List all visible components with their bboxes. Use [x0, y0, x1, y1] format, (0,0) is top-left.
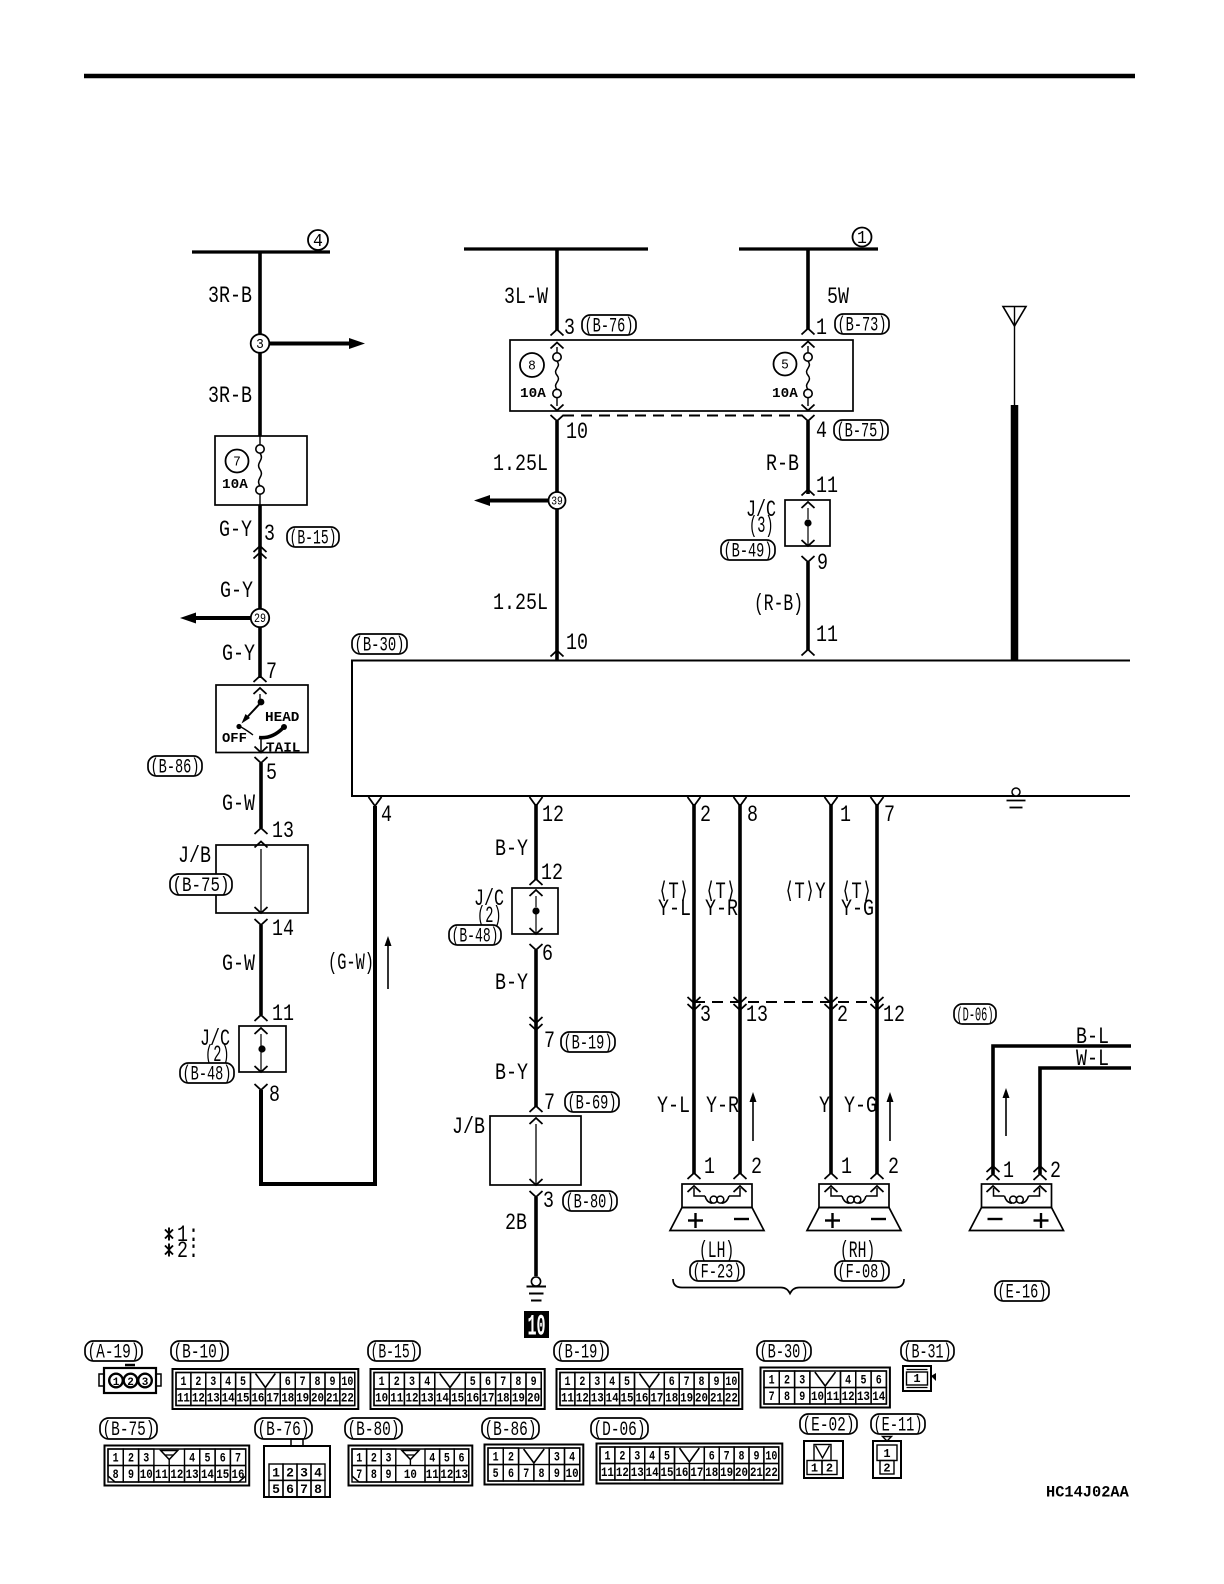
svg-text:2: 2	[579, 1374, 585, 1389]
svg-text:(B-49): (B-49)	[724, 541, 773, 564]
wire G-Y seg2	[258, 627, 262, 678]
svg-text:1: 1	[493, 1450, 499, 1465]
svg-text:8: 8	[113, 1467, 119, 1482]
svg-text:11: 11	[390, 1391, 403, 1406]
svg-text:8: 8	[784, 1389, 790, 1404]
svg-text:8: 8	[371, 1467, 377, 1482]
svg-text:22: 22	[341, 1391, 354, 1406]
svg-text:Y-G: Y-G	[844, 1093, 877, 1119]
svg-text:B-Y: B-Y	[495, 1060, 528, 1086]
svg-text:1: 1	[272, 1466, 280, 1481]
svg-text:1: 1	[857, 229, 867, 249]
svg-text:6: 6	[709, 1449, 715, 1464]
connector B-80 pinout	[349, 1446, 473, 1486]
svg-text:16: 16	[466, 1391, 479, 1406]
svg-text:6: 6	[285, 1374, 291, 1389]
chevrons into J/B mid	[530, 1106, 543, 1112]
chevrons into J/C(3)	[802, 490, 815, 496]
svg-text:9: 9	[386, 1467, 392, 1482]
svg-text:(B-19): (B-19)	[557, 1342, 606, 1365]
speaker wire lower x=740	[738, 1002, 742, 1174]
svg-text:4: 4	[313, 232, 323, 252]
svg-text:5: 5	[664, 1449, 670, 1464]
svg-text:W-L: W-L	[1076, 1046, 1109, 1072]
svg-text:(D-06): (D-06)	[957, 1004, 994, 1026]
radio pin 2 terminal	[688, 797, 701, 806]
svg-text:1: 1	[180, 1374, 186, 1389]
svg-text:7: 7	[769, 1389, 775, 1404]
svg-text:11: 11	[426, 1467, 439, 1482]
svg-text:2: 2	[371, 1451, 377, 1466]
svg-text:(B-15): (B-15)	[290, 528, 337, 551]
svg-text:5W: 5W	[827, 284, 849, 310]
connector B-19 pinout	[557, 1369, 743, 1409]
svg-text:(E-11): (E-11)	[874, 1415, 923, 1438]
svg-text:8: 8	[515, 1374, 521, 1389]
svg-text:12: 12	[192, 1391, 205, 1406]
front speaker LH	[682, 1184, 752, 1208]
svg-text:(B-75): (B-75)	[837, 421, 886, 444]
svg-text:10: 10	[404, 1467, 417, 1482]
wire B-L	[993, 1046, 1131, 1174]
svg-text:(B-30): (B-30)	[760, 1342, 809, 1365]
radio unit box (open right)	[352, 661, 1130, 797]
svg-text:(B-76): (B-76)	[585, 316, 634, 339]
connector label B-80 (inline)	[563, 1191, 617, 1211]
svg-text:20: 20	[695, 1391, 708, 1406]
chevrons out of fuse box left	[551, 405, 564, 411]
svg-text:2: 2	[826, 1462, 833, 1476]
node 3 with branch arrow	[260, 342, 349, 346]
connector label B-80 (chart)	[345, 1418, 402, 1439]
chevrons into RH speaker	[825, 1173, 838, 1179]
svg-text:10: 10	[765, 1449, 777, 1464]
chevrons out of J/C(3)	[802, 540, 815, 546]
svg-text:1: 1	[1003, 1158, 1014, 1184]
terminal chevrons out of switch	[255, 747, 268, 753]
svg-text:(B-75): (B-75)	[173, 875, 230, 898]
svg-text:2: 2	[700, 802, 711, 828]
svg-text:5: 5	[624, 1374, 630, 1389]
svg-text:2: 2	[1050, 1158, 1061, 1184]
svg-text:3: 3	[300, 1466, 308, 1481]
svg-text:7: 7	[884, 802, 895, 828]
svg-text:G-Y: G-Y	[222, 641, 255, 667]
svg-text:OFF: OFF	[222, 731, 247, 747]
connector label A-19	[85, 1341, 142, 1361]
J/C(2) mid dot	[532, 907, 539, 914]
svg-text:7: 7	[235, 1451, 241, 1466]
svg-text:4: 4	[569, 1450, 575, 1465]
svg-text:10: 10	[140, 1467, 153, 1482]
svg-text:21: 21	[710, 1391, 723, 1406]
svg-text:G-Y: G-Y	[219, 517, 252, 543]
svg-text:7: 7	[300, 1374, 306, 1389]
connector label F-23	[690, 1261, 744, 1281]
fuse 7 symbol	[256, 445, 264, 453]
speaker wire lower x=694	[692, 1002, 696, 1174]
svg-text:(B-15): (B-15)	[371, 1342, 418, 1365]
svg-text:12: 12	[542, 802, 564, 828]
bus bar 4	[192, 250, 330, 253]
svg-text:1: 1	[769, 1373, 775, 1388]
svg-text:18: 18	[281, 1391, 294, 1406]
svg-text:3R-B: 3R-B	[208, 283, 252, 309]
wire B-Y seg3	[534, 1030, 538, 1107]
bus bar 1 (right)	[739, 247, 878, 250]
svg-text:9: 9	[128, 1467, 134, 1482]
svg-text:(B-80): (B-80)	[566, 1192, 615, 1215]
fuse 5 symbol	[804, 353, 812, 361]
svg-text:14: 14	[436, 1391, 449, 1406]
svg-text:(B-86): (B-86)	[485, 1419, 537, 1442]
svg-text:11: 11	[561, 1391, 574, 1406]
svg-text:1: 1	[379, 1374, 385, 1389]
svg-text:7: 7	[544, 1090, 555, 1116]
connector label B-48 mid	[449, 925, 501, 945]
svg-text:1: 1	[113, 1451, 119, 1466]
svg-text:3: 3	[256, 337, 264, 353]
svg-text:7: 7	[500, 1374, 506, 1389]
bus bar (middle)	[464, 247, 648, 250]
connector B-75 pinout	[105, 1446, 250, 1486]
svg-text:8: 8	[539, 1466, 545, 1481]
svg-text:19: 19	[296, 1391, 309, 1406]
svg-text:3: 3	[264, 521, 275, 547]
svg-text:17: 17	[650, 1391, 663, 1406]
svg-text:5: 5	[860, 1373, 866, 1388]
svg-text:(3): (3)	[749, 513, 774, 539]
svg-text:12: 12	[842, 1389, 855, 1404]
connector label B-76 (inline)	[582, 315, 636, 335]
chevrons out of fuse box right	[802, 405, 815, 411]
svg-text:8: 8	[739, 1449, 745, 1464]
svg-text:10: 10	[725, 1374, 737, 1389]
chevrons out of J/C(2)	[255, 1066, 268, 1072]
svg-text:10: 10	[566, 630, 588, 656]
svg-text:(E-02): (E-02)	[803, 1415, 855, 1438]
svg-text:5: 5	[493, 1466, 499, 1481]
connector label E-11 (chart)	[871, 1414, 925, 1434]
connector label B-76 (chart)	[255, 1418, 312, 1439]
svg-text:1: 1	[356, 1451, 362, 1466]
svg-text:8: 8	[314, 1482, 322, 1497]
in-line chevrons at D-06 pin 13	[734, 997, 747, 1003]
svg-text:(F-08): (F-08)	[838, 1262, 887, 1285]
svg-text:1: 1	[841, 1154, 852, 1180]
antenna lead-in (thick)	[1011, 405, 1019, 660]
svg-text:15: 15	[621, 1391, 634, 1406]
svg-text:19: 19	[680, 1391, 693, 1406]
svg-text:21: 21	[326, 1391, 339, 1406]
svg-text:Y-R: Y-R	[706, 1093, 739, 1119]
svg-text:R-B: R-B	[766, 451, 799, 477]
svg-text:4: 4	[381, 802, 392, 828]
arrow rear speaker wires	[1005, 1097, 1007, 1136]
connector B-86 pinout	[485, 1445, 584, 1485]
connector B-76 pinout	[264, 1446, 330, 1497]
connector B-31 pinout	[903, 1366, 931, 1391]
svg-text:7: 7	[266, 659, 277, 685]
radio pin 7 terminal	[871, 797, 884, 806]
svg-text:10: 10	[811, 1389, 824, 1404]
svg-text:15: 15	[661, 1465, 674, 1480]
wire B-Y seg2	[534, 950, 538, 1030]
dashed connector line D-06	[694, 1001, 879, 1003]
svg-text:Y-R: Y-R	[705, 896, 738, 922]
svg-text:9: 9	[531, 1374, 537, 1389]
node 29 with branch arrow	[196, 616, 260, 620]
wire G-Y seg1	[258, 505, 262, 618]
svg-text:15: 15	[237, 1391, 250, 1406]
connector E-02 pinout	[804, 1441, 843, 1478]
node 39 with branch arrow	[490, 499, 557, 503]
svg-text:3: 3	[594, 1374, 600, 1389]
antenna symbol	[1003, 307, 1026, 327]
chevrons out of J/B mid	[530, 1179, 543, 1185]
svg-text:(B-31): (B-31)	[904, 1342, 952, 1365]
svg-text:8: 8	[528, 359, 536, 375]
connector label B-19	[554, 1341, 608, 1361]
dashed connector line	[563, 415, 802, 417]
svg-text:21: 21	[750, 1465, 763, 1480]
terminal chevrons into switch	[254, 676, 267, 682]
in-line connector chevrons B-15	[254, 546, 267, 552]
chevrons out of J/C(2) mid	[530, 928, 543, 934]
body ground symbol	[531, 1277, 540, 1286]
OFF contact dot	[236, 724, 241, 729]
svg-text:3: 3	[543, 1188, 554, 1214]
svg-text:3: 3	[409, 1374, 415, 1389]
chassis ground inside radio	[1012, 788, 1020, 796]
svg-text:7: 7	[300, 1482, 308, 1497]
fuse box (8)(5)	[510, 340, 853, 411]
riser direction arrow	[387, 945, 389, 989]
svg-text:1.25L: 1.25L	[493, 451, 548, 477]
joint connector J/C(2) box left	[239, 1026, 286, 1072]
svg-text:5: 5	[266, 760, 277, 786]
svg-text:J/B: J/B	[178, 843, 211, 869]
svg-text:7: 7	[523, 1466, 529, 1481]
svg-text:8: 8	[699, 1374, 705, 1389]
svg-text:3: 3	[142, 1377, 149, 1389]
svg-text:2: 2	[394, 1374, 400, 1389]
svg-text:5: 5	[204, 1451, 210, 1466]
rear speaker E-16	[982, 1184, 1052, 1208]
svg-text:4: 4	[649, 1449, 655, 1464]
chevrons into fuse box right	[802, 329, 815, 335]
svg-text:7: 7	[356, 1467, 362, 1482]
svg-text:5: 5	[781, 358, 789, 374]
svg-text:29: 29	[254, 612, 266, 626]
radio pin 4 terminal	[369, 797, 382, 806]
svg-text:4: 4	[609, 1374, 615, 1389]
wire 2B	[534, 1197, 538, 1276]
svg-text:18: 18	[497, 1391, 510, 1406]
svg-text:(F-23): (F-23)	[693, 1262, 742, 1285]
svg-text:5: 5	[240, 1374, 246, 1389]
speaker wire x=694	[692, 804, 696, 1002]
svg-text:4: 4	[314, 1466, 322, 1481]
lighting switch box B-86	[216, 685, 308, 753]
svg-text:(B-86): (B-86)	[151, 757, 200, 780]
svg-text:1: 1	[816, 315, 827, 341]
wire (R-B)	[806, 562, 810, 650]
svg-text:10: 10	[566, 1466, 579, 1481]
svg-text:15: 15	[216, 1467, 229, 1482]
svg-text:14: 14	[222, 1391, 235, 1406]
svg-text:12: 12	[576, 1391, 589, 1406]
connector label B-75 right (inline)	[834, 420, 888, 440]
svg-text:4: 4	[816, 418, 827, 444]
svg-text:2: 2	[888, 1154, 899, 1180]
svg-text:HC14J02AA: HC14J02AA	[1046, 1484, 1129, 1502]
svg-text:(G-W): (G-W)	[328, 950, 374, 976]
svg-text:1: 1	[883, 1447, 890, 1461]
svg-text:Y-L: Y-L	[658, 896, 691, 922]
speaker wire x=740	[738, 804, 742, 1002]
chevrons into rear speaker	[987, 1166, 1000, 1172]
fuse 5 circled id	[774, 353, 797, 376]
connector label E-16	[995, 1281, 1049, 1301]
arrow Y-R	[752, 1101, 754, 1141]
connector label B-19 (inline)	[561, 1032, 615, 1052]
speaker wire x=831	[829, 804, 833, 1002]
chevrons into fuse box left	[551, 330, 564, 336]
connector label B-30	[352, 634, 407, 654]
svg-text:G-Y: G-Y	[220, 578, 253, 604]
svg-text:9: 9	[329, 1374, 335, 1389]
speaker wire lower x=831	[829, 1002, 833, 1174]
OFF contact tail	[241, 727, 253, 735]
speaker wire lower x=877	[875, 1002, 879, 1174]
connector label D-06 (inline)	[954, 1004, 996, 1024]
arrow Y-G	[889, 1101, 891, 1141]
switch internal wire top	[259, 694, 261, 699]
svg-text:4: 4	[424, 1374, 430, 1389]
svg-text:14: 14	[272, 916, 294, 942]
svg-text:7: 7	[684, 1374, 690, 1389]
svg-text:13: 13	[272, 818, 294, 844]
junction block box mid	[490, 1116, 581, 1185]
wire 1.25L	[555, 421, 559, 661]
svg-text:1: 1	[811, 1462, 818, 1476]
svg-text:16: 16	[251, 1391, 264, 1406]
fuse 8 circled id	[520, 353, 544, 377]
svg-text:15: 15	[451, 1391, 464, 1406]
connector label B-69 (inline)	[565, 1092, 619, 1112]
connector label B-86 (chart)	[482, 1418, 539, 1439]
radio pin 12 terminal	[530, 797, 543, 806]
svg-text:2: 2	[784, 1373, 790, 1388]
switch lever arm	[245, 704, 260, 720]
connector label E-02 (chart)	[800, 1414, 857, 1434]
svg-text:7: 7	[233, 455, 241, 471]
svg-text:6: 6	[876, 1373, 882, 1388]
radio pin 1 terminal	[825, 797, 838, 806]
joint connector J/C(2) box mid	[512, 888, 558, 934]
svg-text:12: 12	[616, 1465, 629, 1480]
wire R-B	[806, 421, 810, 494]
connector label F-08	[835, 1261, 889, 1281]
svg-text:4: 4	[225, 1374, 231, 1389]
svg-text:3R-B: 3R-B	[208, 383, 252, 409]
svg-text:J/B: J/B	[452, 1114, 485, 1140]
svg-text:1: 1	[704, 1154, 715, 1180]
svg-text:12: 12	[883, 1002, 905, 1028]
svg-text:10: 10	[566, 419, 588, 445]
svg-text:1: 1	[604, 1449, 610, 1464]
connector label D-06 (chart)	[591, 1418, 648, 1439]
svg-text:12: 12	[440, 1467, 453, 1482]
svg-text:14: 14	[872, 1389, 885, 1404]
svg-text:13: 13	[746, 1002, 768, 1028]
svg-text:2:: 2:	[177, 1238, 199, 1264]
J/B internal wire	[260, 849, 262, 912]
speaker wire x=877	[875, 804, 879, 1002]
svg-text:B-Y: B-Y	[495, 836, 528, 862]
svg-text:11: 11	[155, 1467, 168, 1482]
junction block box B-75	[216, 845, 308, 913]
connector E-11 pinout	[873, 1441, 901, 1478]
connector label B-73 (inline)	[835, 314, 889, 334]
radio terminal chevron 10	[551, 651, 564, 657]
svg-text:3: 3	[799, 1373, 805, 1388]
underbrace	[673, 1279, 904, 1294]
svg-text:6: 6	[542, 941, 553, 967]
svg-text:TAIL: TAIL	[266, 741, 300, 757]
HEAD contact dot	[281, 724, 287, 730]
chevrons into J/C(2)	[255, 1015, 268, 1021]
svg-text:4: 4	[429, 1451, 435, 1466]
radio pin 8 terminal	[734, 797, 747, 806]
svg-text:G-W: G-W	[222, 791, 255, 817]
svg-text:17: 17	[266, 1391, 279, 1406]
svg-text:(B-48): (B-48)	[183, 1064, 232, 1087]
svg-text:11: 11	[816, 622, 838, 648]
svg-text:10: 10	[528, 1311, 546, 1345]
svg-text:(A-19): (A-19)	[88, 1342, 140, 1365]
svg-text:17: 17	[690, 1465, 703, 1480]
svg-text:3: 3	[564, 315, 575, 341]
connector B-10 pinout	[173, 1369, 359, 1409]
svg-text:6: 6	[669, 1374, 675, 1389]
svg-text:20: 20	[527, 1391, 540, 1406]
svg-text:(B-73): (B-73)	[838, 315, 887, 338]
connector label B-49	[721, 540, 775, 560]
chevrons into LH speaker	[688, 1173, 701, 1179]
J/C(2) dot	[258, 1045, 265, 1052]
bus circled 4	[308, 230, 328, 250]
svg-text:10A: 10A	[520, 386, 546, 402]
svg-text:16: 16	[675, 1465, 688, 1480]
svg-text:3L-W: 3L-W	[504, 284, 548, 310]
svg-text:8: 8	[269, 1082, 280, 1108]
svg-text:13: 13	[857, 1389, 870, 1404]
svg-text:5: 5	[470, 1374, 476, 1389]
page rule (decorative)	[84, 74, 1135, 79]
switch pivot dot	[258, 699, 265, 706]
svg-text:14: 14	[646, 1465, 659, 1480]
fuse 8 symbol	[553, 353, 561, 361]
svg-text:3: 3	[700, 1002, 711, 1028]
svg-text:13: 13	[591, 1391, 604, 1406]
svg-text:10A: 10A	[772, 386, 798, 402]
footnote *2:	[168, 1244, 170, 1250]
svg-text:(D-06): (D-06)	[594, 1419, 646, 1442]
connector label B-48 left	[180, 1063, 234, 1083]
svg-text:3: 3	[554, 1450, 560, 1465]
